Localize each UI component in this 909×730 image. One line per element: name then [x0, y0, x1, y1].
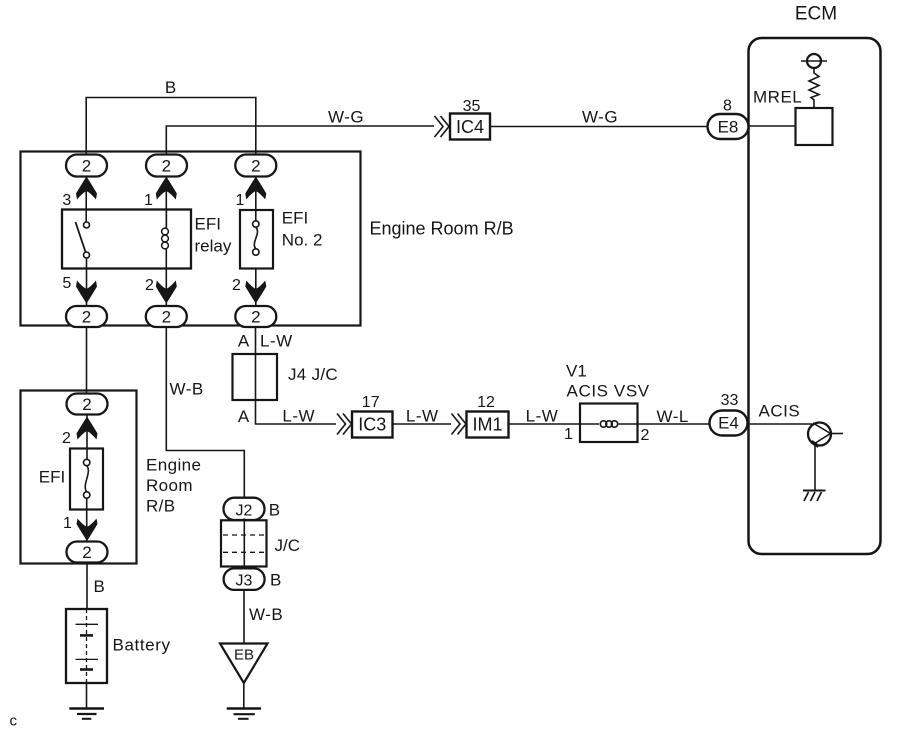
svg-text:W-B: W-B	[170, 380, 204, 399]
wire W-G from relay coil column to IC4	[166, 126, 434, 154]
svg-text:Engine Room R/B: Engine Room R/B	[370, 219, 514, 239]
arrow down col2	[156, 281, 177, 304]
terminal circle MREL supply	[801, 60, 827, 62]
ground hatched inside ECM	[803, 490, 826, 492]
splice chevron into IC3	[337, 414, 352, 435]
svg-text:2: 2	[82, 395, 91, 414]
connector oval 2 col2 bottom	[146, 306, 187, 327]
Engine Room R/B box lower	[21, 391, 137, 564]
svg-text:2: 2	[62, 430, 71, 447]
svg-text:E4: E4	[718, 414, 739, 433]
svg-text:2: 2	[145, 277, 154, 294]
battery cells	[86, 609, 88, 683]
wire EB to ground	[243, 683, 245, 709]
svg-text:2: 2	[162, 308, 171, 327]
junction J4 J/C box	[233, 354, 278, 400]
svg-text:A: A	[238, 332, 250, 351]
svg-text:1: 1	[236, 192, 245, 209]
svg-text:17: 17	[362, 394, 380, 411]
connector IC3	[352, 412, 393, 438]
svg-text:2: 2	[162, 157, 171, 176]
svg-text:c: c	[10, 713, 18, 730]
svg-text:Engine: Engine	[146, 456, 201, 475]
svg-text:ECM: ECM	[795, 4, 837, 25]
svg-text:B: B	[94, 577, 105, 596]
connector oval 2 col3 bottom	[235, 306, 276, 327]
wire B top horizontal	[86, 98, 256, 154]
wire col3 fuse to oval	[255, 269, 257, 307]
solenoid coil	[580, 423, 599, 425]
svg-text:IC4: IC4	[456, 117, 484, 137]
connector J2	[224, 498, 265, 520]
svg-text:3: 3	[62, 192, 71, 209]
svg-text:8: 8	[723, 98, 732, 115]
junction J/C box	[221, 520, 267, 566]
svg-text:EFI: EFI	[282, 209, 308, 228]
fuse element col3	[253, 221, 259, 227]
wire col2 down and right to J2	[166, 327, 244, 499]
fuse EFI box lower	[70, 449, 103, 510]
connector oval 2 col1 top	[66, 155, 107, 177]
wire E8 to MREL box	[749, 125, 796, 127]
MREL driver box	[796, 108, 833, 145]
svg-text:IM1: IM1	[472, 415, 502, 435]
svg-text:J/C: J/C	[275, 536, 301, 555]
wire IM1 to VSV	[509, 423, 581, 425]
connector E4	[710, 411, 748, 436]
svg-text:1: 1	[63, 515, 72, 532]
wire E4 to transistor base	[748, 423, 813, 425]
svg-text:L-W: L-W	[260, 332, 293, 351]
svg-text:B: B	[165, 78, 176, 97]
wire transistor emitter	[814, 446, 816, 491]
splice chevron into IM1	[452, 414, 467, 435]
wire col1 into relay	[85, 176, 87, 222]
svg-text:5: 5	[62, 275, 71, 292]
svg-text:EFI: EFI	[39, 468, 65, 487]
wire into EFI fuse	[86, 415, 88, 460]
svg-text:A: A	[238, 407, 250, 426]
ground battery	[69, 707, 104, 710]
arrow up col3	[245, 177, 266, 200]
connector oval 2 col1 bottom	[66, 306, 107, 327]
wire oval to battery	[86, 563, 88, 610]
wire fuse to oval lower	[86, 498, 88, 542]
svg-text:ACIS VSV: ACIS VSV	[567, 382, 650, 401]
svg-text:12: 12	[477, 394, 495, 411]
svg-text:2: 2	[82, 157, 91, 176]
svg-text:W-G: W-G	[328, 108, 364, 127]
svg-text:2: 2	[251, 308, 260, 327]
fuse EFI No.2 box	[240, 210, 273, 269]
svg-text:L-W: L-W	[282, 407, 315, 426]
fuse element lower	[84, 459, 90, 465]
svg-text:No. 2: No. 2	[282, 231, 323, 250]
connector IC4	[450, 114, 490, 140]
connector oval 2 col2 top	[146, 155, 187, 177]
svg-text:J3: J3	[236, 573, 253, 590]
wire col2 into relay	[165, 176, 167, 228]
battery box	[66, 609, 107, 683]
wire IC3 to IM1	[393, 423, 452, 425]
wire col3 into fuse	[255, 176, 257, 221]
connector oval 2 col3 top	[235, 155, 276, 177]
resistor MREL pull-up	[809, 68, 819, 108]
wire W-G from IC4 to E8	[490, 126, 708, 128]
relay switch contact	[84, 222, 90, 228]
svg-text:2: 2	[82, 543, 91, 562]
wire col2 relay to oval	[165, 269, 167, 307]
svg-text:2: 2	[641, 427, 650, 444]
svg-text:W-L: W-L	[657, 407, 689, 426]
connector J3	[224, 568, 265, 590]
svg-text:Room: Room	[146, 476, 193, 495]
wire VSV to E4	[638, 423, 710, 425]
arrow up col2	[156, 177, 177, 200]
arrow down col1	[76, 281, 97, 304]
svg-text:1: 1	[144, 192, 153, 209]
connector E8	[708, 114, 749, 139]
splice chevron into IC4	[435, 116, 450, 137]
relay coil	[165, 210, 167, 228]
wire battery to ground	[86, 683, 88, 709]
connector oval 2 lower bottom	[67, 542, 108, 563]
svg-text:E8: E8	[718, 118, 739, 137]
ground EB	[227, 707, 261, 710]
svg-text:B: B	[269, 501, 280, 520]
svg-text:L-W: L-W	[526, 407, 559, 426]
svg-text:2: 2	[232, 277, 241, 294]
relay EFI box	[62, 210, 191, 269]
svg-text:J2: J2	[236, 502, 253, 519]
connector IM1	[467, 412, 509, 438]
svg-text:35: 35	[463, 98, 481, 115]
svg-text:1: 1	[564, 426, 573, 443]
Engine Room R/B box top	[21, 152, 361, 326]
svg-text:Battery: Battery	[113, 636, 171, 655]
svg-text:EFI: EFI	[195, 215, 221, 234]
svg-text:relay: relay	[195, 237, 232, 256]
svg-text:B: B	[270, 571, 281, 590]
svg-text:V1: V1	[566, 362, 587, 381]
svg-text:J4 J/C: J4 J/C	[288, 365, 338, 384]
arrow down lower	[77, 519, 98, 542]
ground EB triangle	[220, 644, 268, 684]
svg-text:IC3: IC3	[358, 415, 386, 435]
svg-text:MREL: MREL	[753, 88, 802, 107]
arrow up col1	[76, 177, 97, 200]
svg-text:2: 2	[82, 308, 91, 327]
wire col1 relay to oval	[86, 269, 88, 307]
svg-text:ACIS: ACIS	[759, 402, 801, 421]
svg-text:W-G: W-G	[582, 108, 618, 127]
arrow up lower	[77, 417, 98, 440]
svg-text:R/B: R/B	[146, 497, 176, 516]
wire col3 L-W down through J4	[256, 327, 337, 424]
transistor ACIS driver	[808, 423, 831, 446]
svg-text:EB: EB	[234, 647, 254, 664]
solenoid V1 ACIS VSV box	[580, 404, 638, 443]
svg-text:L-W: L-W	[406, 407, 439, 426]
wire J3 to EB	[243, 589, 245, 644]
connector oval 2 lower top	[67, 394, 108, 415]
svg-text:W-B: W-B	[249, 605, 283, 624]
wire col1 down to lower box	[86, 327, 88, 394]
arrow down col3	[245, 281, 266, 304]
svg-text:2: 2	[251, 157, 260, 176]
svg-text:33: 33	[721, 392, 739, 409]
ECM box	[749, 38, 881, 554]
